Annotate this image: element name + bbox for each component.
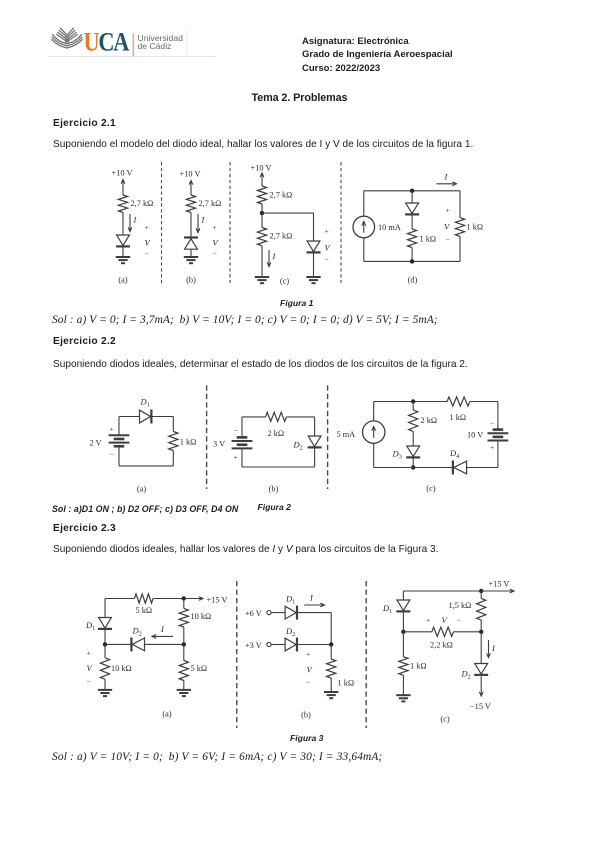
current arrow I fig3c <box>488 640 490 658</box>
current arrow I fig1a <box>129 214 131 232</box>
svg-text:I: I <box>201 215 206 225</box>
node top junction fig3a <box>182 596 186 600</box>
svg-text:V: V <box>325 243 332 253</box>
svg-text:D2: D2 <box>132 626 142 638</box>
supply arrow -15V fig3c <box>480 676 482 696</box>
separator fig2 b|c <box>327 385 329 489</box>
wire lower-resistor-to-ground fig1c <box>261 246 263 277</box>
node right junction fig3c <box>479 630 483 634</box>
diode D fig1d <box>406 203 419 214</box>
current arrow I fig1d <box>436 183 456 185</box>
battery 2 V fig2a <box>109 434 130 436</box>
wire top-right fig3a <box>153 598 184 600</box>
wire resistor-to-diode fig2c <box>412 431 414 446</box>
wire left-bottom fig2c <box>373 443 375 467</box>
resistor 1,5 kOhm fig3c <box>477 598 486 620</box>
resistor 1 kOhm fig3b <box>327 659 336 678</box>
wire left-top fig1d <box>363 191 365 217</box>
wire bottom-left fig2c <box>374 467 453 469</box>
node right junction fig3a <box>182 642 186 646</box>
svg-text:(b): (b) <box>301 711 311 720</box>
svg-text:I: I <box>272 251 277 261</box>
wire diode-to-resistor fig1d <box>411 215 413 229</box>
exercise 2.3 heading <box>53 523 116 534</box>
node left junction fig3a <box>103 642 107 646</box>
wire left-lower fig2a <box>118 446 120 466</box>
wire left-top fig2c <box>373 402 375 421</box>
wire right-lower fig2b <box>314 448 316 468</box>
wire resistor-to-ground fig3b <box>330 678 332 692</box>
svg-text:+: + <box>213 223 217 232</box>
wire top-right fig2b <box>286 416 314 418</box>
wire top fig3c <box>403 590 481 592</box>
svg-text:2,7 kΩ: 2,7 kΩ <box>270 191 293 200</box>
caption Figura 1 <box>280 298 313 308</box>
diode D1 fig3a <box>99 618 112 629</box>
resistor 10 kOhm right fig3a <box>179 608 188 627</box>
wire top-left fig2c <box>374 401 447 403</box>
wire D1-to-node fig3a <box>104 629 106 644</box>
ground fig3b <box>324 691 338 693</box>
course header block <box>302 35 453 75</box>
resistor 2,7 kOhm upper fig1c <box>257 186 266 204</box>
exercise 2.1 heading <box>53 118 116 129</box>
svg-text:(c): (c) <box>426 484 435 493</box>
terminal +3V fig3b <box>267 642 271 646</box>
resistor 1 kOhm fig3c <box>399 657 408 675</box>
svg-text:2 kΩ: 2 kΩ <box>268 429 285 438</box>
svg-text:3 V: 3 V <box>213 440 225 449</box>
resistor 2,7 kOhm lower fig1c <box>257 228 266 246</box>
solution 2.3 <box>52 751 382 763</box>
svg-text:10 mA: 10 mA <box>378 223 401 232</box>
wire diode-to-ground fig1a <box>122 247 124 258</box>
wire diode-to-ground fig1c <box>313 253 315 278</box>
caption Figura 2 <box>258 502 291 512</box>
svg-text:−: − <box>457 616 461 625</box>
svg-text:−: − <box>306 678 310 687</box>
wire supply arrow fig1b <box>190 181 192 196</box>
resistor 5 kOhm right fig3a <box>179 661 188 681</box>
ground right fig3a <box>177 689 191 691</box>
wire right-upper fig3c <box>480 591 482 598</box>
header rule under logo <box>48 56 215 57</box>
separator fig2 a|b <box>206 385 208 489</box>
node bottom junction fig1d <box>410 259 414 263</box>
wire top-left fig3a <box>105 598 134 600</box>
svg-text:D1: D1 <box>140 397 150 409</box>
svg-text:2,2 kΩ: 2,2 kΩ <box>430 641 453 650</box>
wire node-to-resistor fig3b <box>330 645 332 660</box>
svg-text:1 kΩ: 1 kΩ <box>338 679 355 688</box>
node top junction fig1d <box>410 189 414 193</box>
separator fig3 b|c <box>365 581 367 728</box>
svg-text:+10 V: +10 V <box>112 169 133 178</box>
wire 2k2-to-node fig3c <box>454 631 482 633</box>
separator fig1 c|d <box>340 162 342 283</box>
svg-text:−: − <box>87 677 91 686</box>
wire bottom-right fig2c <box>467 467 498 469</box>
svg-text:D1: D1 <box>382 603 392 615</box>
svg-text:−: − <box>234 426 238 435</box>
svg-text:+10 V: +10 V <box>251 164 272 173</box>
svg-text:de Cádiz: de Cádiz <box>138 41 172 51</box>
resistor 5 kOhm fig3a <box>134 594 153 603</box>
ground right fig1c <box>306 276 320 278</box>
svg-text:UCA: UCA <box>84 27 130 56</box>
diode D1 fig2a <box>140 410 151 423</box>
UCA logotype <box>84 27 130 56</box>
wire resistor-to-diode fig1a <box>122 213 124 236</box>
exercise 2.1 statement <box>53 139 473 150</box>
wire left-upper fig3a <box>104 599 106 618</box>
svg-text:+: + <box>306 650 310 659</box>
wire node-to-lower-resistor fig1c <box>261 213 263 227</box>
diode D2 fig2b <box>308 436 321 447</box>
wire node-to-1k fig3c <box>402 632 404 657</box>
resistor 2 kOhm fig2b <box>266 412 287 421</box>
wire corner-down fig3b <box>330 613 332 645</box>
svg-text:I: I <box>160 624 165 634</box>
svg-text:+: + <box>426 616 430 625</box>
svg-text:+3 V: +3 V <box>245 641 262 650</box>
svg-text:−: − <box>446 235 450 244</box>
diode D fig1b (reversed) <box>184 236 198 238</box>
wire node-to-5k fig3a <box>183 644 185 660</box>
svg-text:V: V <box>442 615 449 625</box>
svg-text:+: + <box>325 227 329 236</box>
wire bottom fig2b <box>242 466 315 468</box>
svg-text:1 kΩ: 1 kΩ <box>420 235 437 244</box>
wire supply arrow fig1a <box>122 180 124 196</box>
supply arrow +15V fig3c <box>481 590 514 592</box>
exercise 2.3 statement <box>53 544 438 555</box>
svg-text:D1: D1 <box>85 620 95 632</box>
svg-text:1 kΩ: 1 kΩ <box>410 662 427 671</box>
caption Figura 3 <box>290 733 323 743</box>
diode D3 fig2c <box>407 446 420 457</box>
wire left-lower fig2b <box>241 448 243 467</box>
svg-text:−: − <box>213 249 217 258</box>
svg-text:−: − <box>145 249 149 258</box>
svg-text:+15 V: +15 V <box>489 580 510 589</box>
wire node-to-right-branch fig1c <box>262 212 314 214</box>
wire left-upper fig2b <box>241 417 243 438</box>
svg-text:(b): (b) <box>269 485 279 494</box>
diode D2 fig3c <box>475 664 488 675</box>
svg-text:D3: D3 <box>392 449 402 461</box>
ground left fig3a <box>98 689 112 691</box>
node bottom junction fig2c <box>411 465 415 469</box>
wire top-right fig2c <box>470 401 498 403</box>
svg-text:V: V <box>145 238 152 248</box>
wire terminal-to-D2 fig3b <box>271 644 285 646</box>
resistor 1 kOhm middle fig1d <box>408 229 417 248</box>
wire diode-to-bottom fig2c <box>412 458 414 468</box>
svg-text:2,7 kΩ: 2,7 kΩ <box>131 199 154 208</box>
separator fig1 a|b <box>161 162 163 283</box>
wire bottom fig1d <box>364 260 460 262</box>
svg-text:5 mA: 5 mA <box>337 430 356 439</box>
svg-text:D4: D4 <box>449 448 460 460</box>
wire bottom fig2a <box>119 465 173 467</box>
wire node-to-D2 fig3c <box>480 632 482 664</box>
svg-text:1 kΩ: 1 kΩ <box>467 223 484 232</box>
svg-text:(a): (a) <box>118 276 127 285</box>
svg-text:+: + <box>234 453 238 462</box>
svg-text:(a): (a) <box>162 710 171 719</box>
svg-text:−: − <box>325 255 329 264</box>
header cell rule <box>186 27 187 56</box>
wire right-top fig1d <box>459 191 461 218</box>
wire left-bottom fig1d <box>363 238 365 262</box>
diode D2 fig3a <box>132 638 144 651</box>
wire supply arrow fig1c <box>261 173 263 186</box>
svg-text:+: + <box>446 206 450 215</box>
svg-text:(c): (c) <box>440 715 449 724</box>
wire top-left fig2a <box>119 416 140 418</box>
node junction fig3b <box>329 642 333 646</box>
wire right-upper fig3a <box>183 599 185 609</box>
wire node-to-resistor fig3a <box>104 644 106 657</box>
wire D1-to-corner fig3b <box>298 612 332 614</box>
wire top fig1d <box>364 190 460 192</box>
svg-text:10 V: 10 V <box>467 431 483 440</box>
wire resistor-to-node right fig3a <box>183 627 185 644</box>
resistor 2,7 kOhm fig1a <box>118 195 127 213</box>
svg-text:D2: D2 <box>461 669 471 681</box>
node left junction fig3c <box>401 630 405 634</box>
current source 10 mA fig1d <box>353 216 375 238</box>
svg-text:I: I <box>444 172 449 182</box>
current arrow I fig1c <box>268 250 270 267</box>
svg-text:+15 V: +15 V <box>207 596 228 605</box>
exercise 2.2 heading <box>53 336 116 347</box>
separator fig3 a|b <box>236 581 238 728</box>
diode D fig1a <box>117 235 130 246</box>
svg-text:+: + <box>110 425 114 434</box>
svg-text:V: V <box>213 238 220 248</box>
svg-text:10 kΩ: 10 kΩ <box>191 612 212 621</box>
document title <box>0 92 599 104</box>
svg-text:+6 V: +6 V <box>245 609 262 618</box>
svg-text:I: I <box>491 643 496 653</box>
wire left-upper fig3c <box>402 591 404 600</box>
wire left-upper fig2a <box>118 417 120 436</box>
svg-text:2 V: 2 V <box>90 439 102 448</box>
wire terminal-to-D1 fig3b <box>271 612 285 614</box>
diode D1 fig3c <box>397 600 410 611</box>
logo divider line <box>133 34 135 57</box>
svg-text:2,7 kΩ: 2,7 kΩ <box>199 199 222 208</box>
wire right fig2a lower <box>172 451 174 466</box>
svg-text:−: − <box>490 419 494 428</box>
svg-text:2,7 kΩ: 2,7 kΩ <box>270 231 293 240</box>
resistor 1 kOhm fig2a <box>169 432 178 451</box>
svg-text:D1: D1 <box>285 594 295 606</box>
resistor 2,7 kOhm fig1b <box>186 195 195 213</box>
terminal +6V fig3b <box>267 611 271 615</box>
diode D fig1c <box>307 241 320 252</box>
svg-text:I: I <box>309 593 314 603</box>
svg-text:−: − <box>110 450 114 459</box>
resistor 10 kOhm left fig3a <box>100 658 109 679</box>
current arrow I fig3b <box>304 604 325 606</box>
wire D2-to-right fig3a <box>145 643 184 645</box>
wire resistor-to-ground left fig3a <box>104 679 106 690</box>
node junction fig1c <box>260 211 264 215</box>
solution 2.1 <box>52 314 438 326</box>
svg-text:D2: D2 <box>293 440 303 452</box>
wire right fig2a upper <box>172 417 174 432</box>
battery 10 V fig2c <box>493 428 504 431</box>
separator fig1 b|c <box>229 162 231 283</box>
wire node-to-D2 fig3a <box>105 643 131 645</box>
svg-text:+10 V: +10 V <box>180 170 201 179</box>
svg-text:(c): (c) <box>280 277 289 286</box>
svg-text:5 kΩ: 5 kΩ <box>191 664 208 673</box>
svg-text:10 kΩ: 10 kΩ <box>111 664 132 673</box>
wire right-upper fig2b <box>314 417 316 436</box>
supply arrow +15V fig3a <box>184 598 203 600</box>
diode D4 fig2c <box>454 461 467 474</box>
ground fig1b <box>184 256 198 258</box>
svg-text:1 kΩ: 1 kΩ <box>450 413 467 422</box>
wire resistor-to-bottom fig1d <box>411 248 413 262</box>
wire D2-to-node fig3b <box>298 644 332 646</box>
wire resistor-to-diode fig1b <box>190 213 192 238</box>
node top junction fig2c <box>411 399 415 403</box>
wire right-lower fig2c <box>497 441 499 468</box>
resistor 1 kOhm fig2c <box>447 397 470 406</box>
diode D1 fig3b <box>285 606 296 619</box>
svg-text:2 kΩ: 2 kΩ <box>421 416 438 425</box>
svg-text:+: + <box>145 223 149 232</box>
svg-text:5 kΩ: 5 kΩ <box>136 606 153 615</box>
wire resistor-to-node right fig3c <box>480 620 482 632</box>
svg-text:1 kΩ: 1 kΩ <box>180 438 197 447</box>
svg-text:V: V <box>444 222 451 232</box>
wire right-bottom fig1d <box>459 236 461 261</box>
svg-text:I: I <box>133 215 138 225</box>
wire 1k-to-ground fig3c <box>402 675 404 695</box>
wire node-to-2k2 fig3c <box>403 631 431 633</box>
current arrow I fig1b <box>197 214 199 233</box>
wire node-to-resistor fig2c <box>412 402 414 411</box>
resistor 2 kOhm fig2c <box>409 410 418 431</box>
current source 5 mA fig2c <box>363 421 385 443</box>
resistor 1 kOhm right fig1d <box>455 218 464 237</box>
diode D2 fig3b <box>285 638 296 651</box>
wire resistor-to-node fig1c <box>261 204 263 213</box>
ground fig3c <box>396 694 410 696</box>
svg-text:+: + <box>87 649 91 658</box>
svg-text:−15 V: −15 V <box>470 702 491 711</box>
svg-text:D2: D2 <box>285 626 295 638</box>
solution 2.2 <box>52 504 238 514</box>
ground left fig1c <box>255 276 269 278</box>
svg-text:(d): (d) <box>408 276 418 285</box>
current arrow I fig3a <box>152 635 173 637</box>
wire top-right fig2a <box>152 416 174 418</box>
svg-text:(b): (b) <box>186 276 196 285</box>
node top junction fig3c <box>479 589 483 593</box>
wire mid-top fig1d <box>411 191 413 203</box>
wire diode-to-ground fig1b <box>190 249 192 257</box>
svg-text:V: V <box>87 663 94 673</box>
svg-text:(a): (a) <box>137 485 146 494</box>
wire resistor-to-ground right fig3a <box>183 681 185 690</box>
wire right-upper fig2c <box>497 402 499 430</box>
svg-text:V: V <box>307 665 314 675</box>
wire D1-to-node fig3c <box>402 612 404 632</box>
exercise 2.2 statement <box>53 359 468 370</box>
svg-text:+: + <box>490 443 494 452</box>
ground fig1a <box>116 256 130 258</box>
svg-text:1,5 kΩ: 1,5 kΩ <box>449 601 472 610</box>
battery 3 V fig2b <box>237 436 248 439</box>
UCA logo emblem <box>52 28 83 48</box>
wire top-left fig2b <box>242 416 266 418</box>
resistor 2,2 kOhm fig3c <box>432 627 454 636</box>
